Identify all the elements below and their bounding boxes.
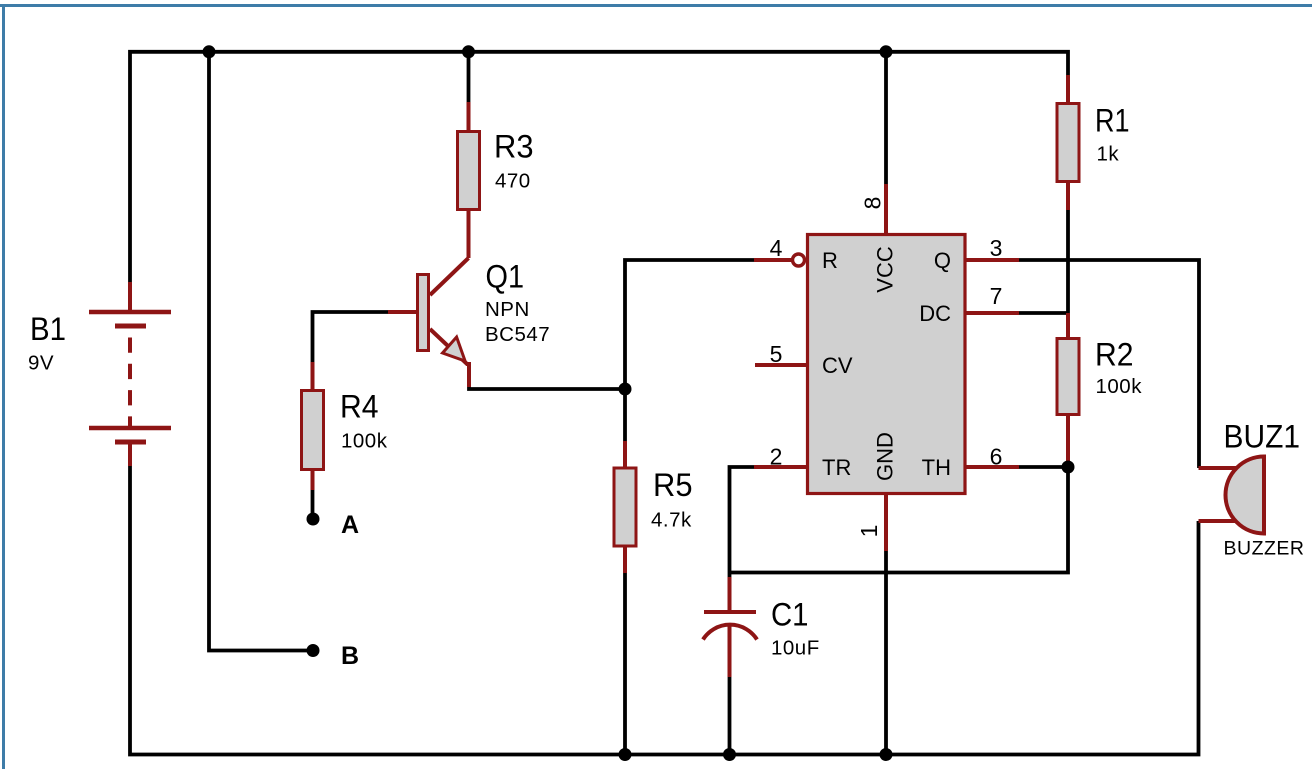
svg-text:C1: C1 bbox=[771, 597, 809, 633]
svg-text:R5: R5 bbox=[653, 467, 693, 503]
R4 lead top bbox=[311, 362, 315, 392]
node B bbox=[307, 642, 360, 670]
Q1 collector lead bbox=[430, 258, 469, 295]
R4 lead bottom bbox=[311, 469, 315, 490]
svg-text:1: 1 bbox=[856, 525, 882, 538]
svg-text:BC547: BC547 bbox=[485, 323, 550, 346]
svg-text:R1: R1 bbox=[1095, 103, 1130, 139]
R3 lead top bbox=[467, 102, 471, 132]
battery plate long 1 bbox=[89, 310, 171, 315]
R4 body bbox=[302, 391, 324, 470]
battery plate long 2 bbox=[89, 426, 171, 431]
svg-text:470: 470 bbox=[495, 170, 531, 193]
pin 5 stub bbox=[755, 363, 807, 367]
junction dot bottom R5 bbox=[619, 748, 632, 761]
wire junction to 555 pin4 bbox=[625, 260, 754, 389]
svg-text:3: 3 bbox=[990, 235, 1003, 261]
Q1 emitter lead bbox=[430, 329, 469, 387]
wire 555 pin3 to buzzer bbox=[1019, 260, 1199, 468]
pin 7 stub bbox=[964, 311, 1019, 315]
battery plate short 1 bbox=[115, 324, 146, 329]
R1 lead top bbox=[1066, 75, 1070, 104]
svg-text:GND: GND bbox=[873, 432, 898, 481]
svg-text:VCC: VCC bbox=[873, 246, 898, 293]
svg-text:R3: R3 bbox=[494, 129, 534, 165]
svg-text:9V: 9V bbox=[28, 352, 54, 375]
svg-text:BUZ1: BUZ1 bbox=[1224, 419, 1301, 455]
wire junction to R5 bbox=[623, 389, 627, 441]
battery lead top bbox=[128, 282, 132, 312]
resistor R4 bbox=[302, 362, 388, 490]
resistor R1 bbox=[1057, 75, 1130, 210]
buzzer BUZ1 bbox=[1199, 419, 1305, 560]
battery dashed link bbox=[128, 338, 132, 429]
Q1 base bar bbox=[418, 275, 429, 351]
capacitor C1 bbox=[703, 577, 820, 677]
resistor R3 bbox=[458, 102, 534, 258]
svg-text:DC: DC bbox=[919, 301, 951, 326]
BUZ1 top terminal bbox=[1199, 466, 1237, 470]
battery lead mid bbox=[128, 421, 132, 428]
svg-text:TR: TR bbox=[822, 455, 851, 480]
junction dot bottom C1 bbox=[723, 748, 736, 761]
C1 plate bottom arc bbox=[703, 625, 757, 640]
pin 3 stub bbox=[964, 258, 1019, 262]
pin 8 stub bbox=[884, 184, 888, 235]
wire emitter to junction bbox=[469, 387, 625, 389]
wire R4 to node A bbox=[311, 489, 315, 514]
BUZ1 shell bbox=[1226, 457, 1265, 534]
svg-text:1k: 1k bbox=[1097, 143, 1120, 166]
svg-text:NPN: NPN bbox=[485, 298, 530, 321]
svg-text:BUZZER: BUZZER bbox=[1224, 538, 1305, 560]
svg-text:B1: B1 bbox=[30, 311, 66, 347]
svg-text:100k: 100k bbox=[341, 430, 388, 453]
svg-text:R2: R2 bbox=[1095, 337, 1134, 373]
svg-text:6: 6 bbox=[990, 444, 1003, 470]
R5 body bbox=[614, 468, 636, 546]
R3 body bbox=[458, 132, 480, 210]
wire 555 pin6 to R2 node bbox=[1019, 465, 1066, 469]
svg-text:4.7k: 4.7k bbox=[651, 509, 692, 532]
wire 555 pin7 to R1R2 bbox=[1019, 311, 1068, 315]
junction dot emitter bbox=[619, 383, 632, 396]
IC U1 555 timer bbox=[754, 184, 1019, 551]
battery B1 bbox=[28, 282, 171, 466]
transistor Q1 bbox=[388, 258, 550, 387]
wire R1 to pin7 node bbox=[1066, 210, 1070, 313]
Q1 emitter arrow bbox=[443, 337, 466, 361]
BUZ1 bottom terminal bbox=[1199, 519, 1237, 523]
border frame left bbox=[2, 6, 5, 769]
R2 lead top bbox=[1066, 313, 1070, 339]
svg-text:2: 2 bbox=[770, 444, 783, 470]
wire 555 pin2 branch bbox=[730, 467, 755, 573]
wire 555 pin8 to rail bbox=[884, 52, 888, 184]
wire C1 top stub bbox=[728, 573, 732, 579]
node pin6 junction bbox=[1062, 461, 1075, 474]
C1 plate top bbox=[704, 610, 756, 614]
R2 body bbox=[1057, 339, 1079, 415]
svg-text:CV: CV bbox=[822, 353, 853, 378]
wire base to R4 bbox=[313, 312, 389, 363]
border frame top bbox=[0, 4, 1312, 7]
svg-text:7: 7 bbox=[990, 283, 1003, 309]
battery plate short 2 bbox=[115, 440, 146, 445]
R2 lead bottom bbox=[1066, 414, 1070, 467]
wire lower link C1 to R2 node bbox=[730, 467, 1069, 573]
C1 lead top bbox=[728, 577, 732, 610]
svg-text:TH: TH bbox=[922, 455, 951, 480]
wire top rail bbox=[130, 52, 1068, 282]
wire bottom rail bbox=[130, 466, 1199, 755]
R5 lead top bbox=[623, 441, 627, 469]
resistor R5 bbox=[614, 441, 693, 573]
svg-text:4: 4 bbox=[770, 235, 783, 261]
svg-text:10uF: 10uF bbox=[771, 637, 820, 660]
svg-text:8: 8 bbox=[860, 197, 886, 210]
wire R3 to rail bbox=[467, 52, 471, 102]
pin 6 stub bbox=[964, 465, 1019, 469]
svg-text:5: 5 bbox=[770, 341, 783, 367]
R5 lead bottom bbox=[623, 545, 627, 573]
junction dot rail-R3 bbox=[462, 45, 475, 58]
node A bbox=[307, 511, 360, 539]
C1 lead bottom bbox=[728, 625, 732, 677]
svg-text:Q: Q bbox=[934, 248, 951, 273]
Q1 base lead bbox=[388, 310, 416, 314]
svg-text:R4: R4 bbox=[340, 389, 379, 425]
wire R5 to bottom rail bbox=[623, 573, 627, 755]
battery lead bottom bbox=[128, 442, 132, 466]
svg-text:B: B bbox=[341, 642, 359, 670]
resistor R2 bbox=[1057, 313, 1142, 467]
wire 555 pin1 to bottom rail bbox=[884, 551, 888, 755]
pin 2 stub bbox=[754, 465, 807, 469]
svg-text:A: A bbox=[341, 511, 359, 539]
svg-text:Q1: Q1 bbox=[486, 259, 525, 295]
R1 body bbox=[1057, 104, 1079, 182]
R3 lead bottom bbox=[467, 209, 471, 258]
svg-text:R: R bbox=[822, 248, 838, 273]
svg-text:100k: 100k bbox=[1096, 375, 1143, 398]
junction dot rail-left bbox=[203, 45, 216, 58]
R1 lead bottom bbox=[1066, 181, 1070, 210]
junction dot rail-555 bbox=[880, 45, 893, 58]
pin 4 stub with bubble bbox=[754, 258, 793, 262]
wire C1 to bottom rail bbox=[728, 677, 732, 755]
pin 1 stub bbox=[884, 493, 888, 551]
wire left branch to node B bbox=[209, 52, 313, 651]
junction dot bottom 555 bbox=[880, 748, 893, 761]
